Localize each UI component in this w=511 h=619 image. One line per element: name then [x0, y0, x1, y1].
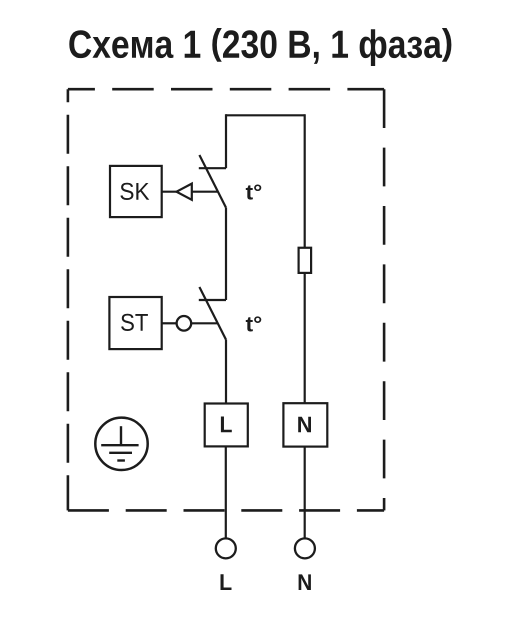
label t° of ST thermostat: [246, 316, 261, 331]
wire: ST blade down to terminal box L: [225, 340, 227, 404]
label N in box: [298, 417, 311, 433]
enclosure dashed border: [68, 89, 384, 510]
terminal circle L: [216, 538, 236, 558]
resistor (heater element): [299, 248, 312, 273]
ground symbol (protective earth in circle): [95, 418, 147, 470]
switch SK fixed contact tick: [199, 167, 226, 169]
switch ST blade: [199, 287, 226, 340]
wire: vertical down to thermostat SK fixed contact: [225, 114, 227, 168]
wire: right vertical down to heater resistor: [304, 114, 306, 248]
terminal box N: [283, 403, 327, 446]
wire: top horizontal link: [226, 114, 305, 116]
wire: resistor down to terminal box N: [304, 273, 306, 403]
label N terminal: [299, 574, 311, 590]
label t° of SK thermostat: [246, 184, 261, 199]
box SK: [110, 166, 162, 217]
box ST: [109, 297, 161, 349]
wire: N box to N terminal: [304, 447, 306, 538]
label L in box: [221, 417, 232, 433]
wire: circle to ST blade: [191, 322, 218, 324]
wire: ST box to actuator circle: [162, 322, 177, 324]
title "Схема 1 (230 В, 1 фаза)": [69, 28, 451, 66]
wire: L box to L terminal: [225, 446, 227, 537]
label SK: [120, 183, 149, 200]
label L terminal: [221, 574, 232, 590]
wire: between SK blade and ST contact: [225, 208, 227, 300]
circle: ST actuator symbol: [177, 316, 192, 331]
wire: SK actuator link: [162, 191, 218, 193]
terminal box L: [205, 404, 248, 447]
switch ST fixed contact tick: [199, 299, 226, 301]
arrowhead on SK actuator link: [177, 184, 192, 200]
switch SK blade: [199, 155, 226, 208]
terminal circle N: [295, 538, 315, 558]
label ST: [121, 314, 148, 331]
